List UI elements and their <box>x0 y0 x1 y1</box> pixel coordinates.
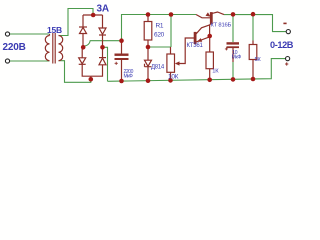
svg-text:КТ 816Б: КТ 816Б <box>211 23 232 29</box>
svg-text:Д814: Д814 <box>151 65 165 71</box>
svg-text:620: 620 <box>154 31 165 38</box>
svg-text:R1: R1 <box>156 23 164 30</box>
svg-text:МкФ: МкФ <box>232 55 242 61</box>
svg-text:220В: 220В <box>3 42 26 53</box>
svg-text:15В: 15В <box>47 25 62 35</box>
svg-text:МкФ: МкФ <box>124 74 134 80</box>
svg-text:10К: 10К <box>168 74 179 81</box>
svg-text:1К: 1К <box>212 68 219 74</box>
svg-text:КТ361: КТ361 <box>187 43 204 49</box>
svg-text:5К: 5К <box>255 57 262 63</box>
svg-text:0-12В: 0-12В <box>270 40 294 50</box>
svg-text:3А: 3А <box>97 4 109 15</box>
